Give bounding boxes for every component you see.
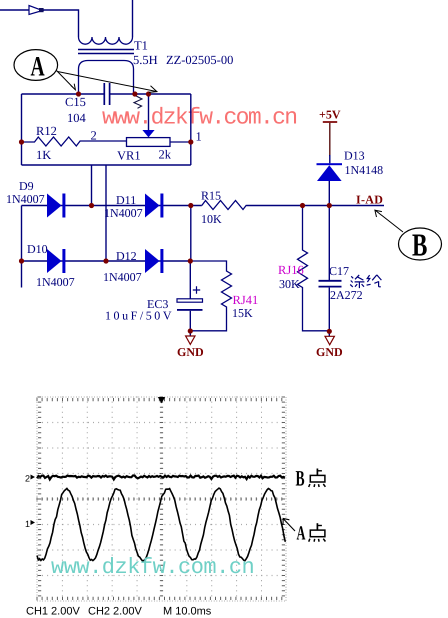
wire VR1 to right rail [170, 141, 191, 143]
ground left [186, 336, 195, 344]
trace B [37, 476, 285, 480]
svg-text:2A272: 2A272 [330, 288, 363, 302]
svg-text:ZZ-02505-00: ZZ-02505-00 [166, 53, 233, 67]
potentiometer VR1 [127, 138, 171, 147]
transformer T1 secondary winding [79, 61, 134, 95]
svg-text:1N4007: 1N4007 [104, 206, 143, 220]
svg-text:1N4007: 1N4007 [6, 192, 45, 206]
svg-text:2k: 2k [159, 148, 172, 162]
arrow to trace A [283, 518, 295, 531]
svg-text:GND: GND [177, 345, 204, 359]
wire left rail [21, 94, 23, 165]
svg-text:30K: 30K [279, 277, 300, 291]
wire drop to D9-D11 node [91, 165, 93, 206]
resistor R12 [22, 137, 127, 146]
trace A [37, 488, 285, 561]
resistor RJ16 [298, 206, 330, 331]
transformer T1 core [78, 50, 134, 54]
svg-text:I-AD: I-AD [356, 193, 383, 207]
wire rectifier row 1 [22, 205, 385, 207]
svg-text:R15: R15 [201, 189, 221, 203]
wire C17 branch [328, 206, 330, 281]
svg-text:1K: 1K [36, 148, 51, 162]
svg-text:1N4007: 1N4007 [36, 275, 75, 289]
svg-text:2: 2 [91, 129, 97, 143]
ground right [325, 336, 334, 345]
svg-text:15K: 15K [232, 306, 253, 320]
wire right rail [190, 94, 192, 165]
svg-text:10uF/50V: 10uF/50V [105, 309, 174, 323]
wire D13 to I-AD node [328, 181, 330, 206]
wire VR1 wiper [148, 94, 150, 130]
wire bottom edge [22, 164, 191, 166]
input arrow symbol [29, 6, 43, 15]
diode D10 [47, 249, 62, 273]
transformer T1 primary winding [79, 37, 133, 44]
capacitor C17 [319, 281, 342, 287]
diode D12 [145, 249, 160, 273]
wire EC3 branch [189, 261, 191, 299]
wire input top-left [0, 9, 29, 11]
diode D11 [145, 194, 160, 218]
svg-text:104: 104 [67, 111, 87, 125]
svg-text:www.dzkfw.com.cn: www.dzkfw.com.cn [51, 555, 254, 580]
svg-text:D12: D12 [116, 249, 137, 263]
svg-text:C17: C17 [329, 264, 349, 278]
svg-text:A: A [31, 52, 46, 83]
svg-text:D10: D10 [27, 242, 48, 256]
svg-text:5.5H: 5.5H [133, 53, 158, 67]
svg-text:GND: GND [316, 345, 343, 359]
svg-text:1N4148: 1N4148 [345, 163, 384, 177]
label dilun [350, 275, 381, 288]
diode D13 [317, 163, 343, 165]
wire to transformer primary [44, 10, 79, 37]
wire +5V to D13 [329, 123, 331, 156]
svg-text:1: 1 [25, 519, 30, 529]
wire tank top node [22, 93, 191, 95]
wire C17 to ground [328, 288, 330, 336]
svg-text:+5V: +5V [319, 108, 341, 122]
wire EC3 to ground [189, 311, 191, 336]
wire rectifier row 2 [22, 260, 191, 262]
svg-text:D13: D13 [344, 149, 365, 163]
capacitor C15 [104, 83, 109, 105]
svg-text:D11: D11 [116, 193, 136, 207]
node A callout [14, 50, 58, 81]
svg-text:R12: R12 [36, 124, 57, 138]
resistor RJ41 [190, 261, 231, 331]
svg-text:CH2 2.00V: CH2 2.00V [88, 606, 142, 618]
VR1 wiper arrow [142, 130, 154, 137]
wire primary right to top edge [132, 0, 134, 37]
svg-text:VR1: VR1 [117, 149, 141, 163]
svg-text:RJ16: RJ16 [278, 263, 304, 277]
svg-text:M 10.0ms: M 10.0ms [163, 606, 212, 618]
svg-text:A: A [297, 522, 306, 544]
svg-text:1: 1 [196, 130, 202, 144]
wiper stub zigzag [134, 96, 142, 109]
wire left rail between rows [21, 206, 23, 288]
wire drop to D10-D12 node [105, 165, 107, 261]
svg-text:10K: 10K [201, 212, 222, 226]
svg-text:CH1 2.00V: CH1 2.00V [26, 606, 80, 618]
svg-text:www.dzkfw.com.cn: www.dzkfw.com.cn [102, 105, 296, 131]
svg-text:T1: T1 [134, 39, 148, 53]
svg-text:RJ41: RJ41 [233, 293, 259, 307]
node B callout [399, 228, 442, 260]
power rail bar [323, 121, 337, 123]
svg-text:C15: C15 [65, 95, 86, 109]
resistor R15 [202, 201, 247, 210]
svg-text:1N4007: 1N4007 [103, 270, 142, 284]
capacitor EC3 [177, 299, 203, 302]
diode D9 [47, 194, 62, 218]
trigger marker [158, 397, 165, 403]
oscilloscope graticule [37, 397, 283, 596]
wire right rail between rows [190, 206, 192, 262]
svg-text:B: B [412, 227, 427, 263]
svg-text:D9: D9 [19, 179, 34, 193]
svg-text:B: B [296, 466, 305, 491]
svg-text:2: 2 [25, 474, 30, 484]
